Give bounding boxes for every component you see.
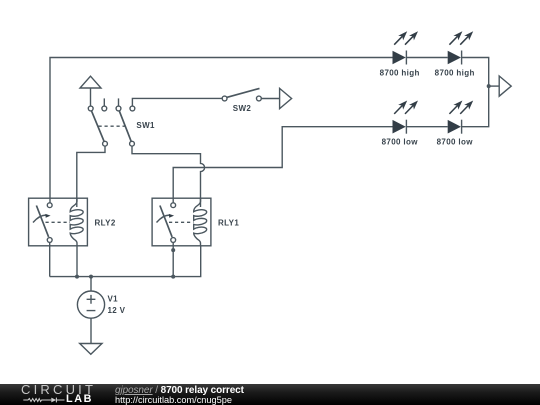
relay RLY1 <box>152 198 211 246</box>
svg-text:12 V: 12 V <box>108 306 126 315</box>
LED D4 (8700 low) <box>448 101 474 134</box>
wire: between high LEDs D1-D2 <box>406 57 447 59</box>
attribution line 1 <box>115 385 244 397</box>
LED D1 (8700 high) <box>393 31 419 64</box>
svg-text:8700 low: 8700 low <box>437 138 474 147</box>
switch SW2 (SPST) <box>222 88 261 113</box>
wire: RLY1 switch top terminal up, right and up to low LED row <box>173 127 392 206</box>
wire: high row right, down right bus, to low LED D4 cathode <box>462 58 489 127</box>
svg-text:RLY2: RLY2 <box>95 218 116 227</box>
wire: RLY2 coil bottom to ground bus <box>76 246 78 277</box>
wire: top net from LED D1 anode left and down to RLY2 switch top <box>50 58 393 206</box>
LED D3 (8700 low) <box>393 101 419 134</box>
switch SW1 (DPDT) <box>88 106 155 146</box>
svg-text:RLY1: RLY1 <box>218 218 239 227</box>
wire: SW2 right terminal to node flag NF3 <box>261 98 279 100</box>
wire: SW1 pole2 left throw stub <box>118 98 120 108</box>
wire: ground bus <box>50 246 201 277</box>
wire: bus down to V1 plus terminal <box>90 277 92 291</box>
wire: between low LEDs D3-D4 <box>406 126 447 128</box>
attribution line 2 <box>115 395 232 405</box>
wire: SW1 pole1 right throw stub <box>103 98 105 108</box>
wire: SW1 pole1 common down-left to RLY2 coil top <box>77 144 105 207</box>
LED D2 (8700 high) <box>448 31 474 64</box>
CircuitLab logo wordmark <box>21 383 96 396</box>
node flag NF1 (up) on SW1 pole 1 left throw <box>80 76 101 106</box>
relay RLY2 <box>29 198 88 246</box>
wire: V1 minus to ground flag <box>90 318 92 343</box>
junction: RLY2 coil at bus <box>75 275 79 279</box>
svg-text:SW1: SW1 <box>136 121 155 130</box>
ground (node flag down) <box>80 344 102 355</box>
svg-text:8700 low: 8700 low <box>382 138 419 147</box>
CircuitLab logo LAB <box>66 394 93 405</box>
junction: right bus / flag stub <box>487 84 491 88</box>
junction: RLY1 switch at bus <box>171 275 175 279</box>
wire: stub to right node flag <box>489 85 500 87</box>
svg-text:8700 high: 8700 high <box>435 68 475 77</box>
node flag NF2 (right) output <box>499 76 511 96</box>
svg-text:V1: V1 <box>108 295 119 304</box>
wire: SW1 pole2 right throw up and over to SW2 left terminal <box>132 98 224 108</box>
wire: RLY1 switch bottom to ground bus <box>172 242 174 277</box>
node flag NF3 (right) after SW2 <box>280 88 292 108</box>
voltage source V1 (12 V) <box>77 291 125 318</box>
wire: SW1 pole2 common to RLY1 coil top, hop over crossing wire <box>132 144 205 207</box>
svg-text:SW2: SW2 <box>233 104 252 113</box>
svg-text:8700 high: 8700 high <box>380 68 420 77</box>
junction: RLY1 switch wire joint <box>171 248 175 252</box>
wire: RLY2 switch bottom to ground bus <box>49 242 51 277</box>
footer bar <box>0 384 540 405</box>
junction: V1 at bus <box>89 275 93 279</box>
CircuitLab logo resistor-diode glyph <box>22 396 66 404</box>
